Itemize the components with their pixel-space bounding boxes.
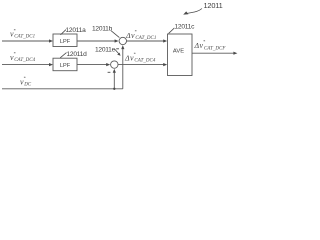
AVE box 12011c — [168, 34, 193, 76]
svg-text:LPF: LPF — [60, 39, 71, 45]
label 12011a — [61, 27, 87, 35]
svg-text:LPF: LPF — [60, 63, 71, 69]
wire vertical bus to summer 2 — [113, 72, 115, 89]
arrowhead bus into summer 1 bottom — [121, 45, 124, 49]
svg-text:AVE: AVE — [173, 48, 184, 54]
summer circle 12011b — [119, 37, 126, 44]
signal label v*CAT_DC1 — [10, 28, 35, 40]
svg-text:CAT_DC4: CAT_DC4 — [134, 59, 155, 64]
wire input row 1 — [2, 40, 51, 42]
wire bottom bus v*DC — [2, 88, 123, 90]
svg-text:12011c: 12011c — [175, 24, 196, 31]
minus sign at summer 1 — [116, 48, 119, 50]
arrowhead into LPF2 — [49, 63, 53, 66]
LPF box U-12011d — [53, 58, 77, 70]
arrowhead bus into summer 2 bottom — [113, 69, 116, 73]
arrowhead into summer 2 — [106, 63, 110, 66]
svg-text:12011a: 12011a — [66, 27, 87, 34]
label 12011d — [60, 51, 87, 58]
svg-text:DC: DC — [23, 82, 32, 87]
arrowhead into AVE row1 — [163, 39, 167, 42]
arrowhead into LPF1 — [49, 39, 53, 42]
svg-text:12011b: 12011b — [92, 26, 113, 33]
summer circle 12011e — [111, 61, 118, 68]
svg-text:CAT_DCF: CAT_DCF — [204, 46, 226, 51]
wire AVE output — [192, 52, 234, 54]
arrowhead into AVE row2 — [163, 63, 167, 66]
svg-text:CAT_DC1: CAT_DC1 — [14, 35, 35, 40]
arrowhead into summer 1 — [115, 39, 119, 42]
svg-text:12011: 12011 — [204, 1, 223, 10]
arrowhead AVE output — [233, 52, 237, 55]
signal label dv*CAT_DC1 — [125, 29, 156, 41]
label 12011e — [95, 47, 121, 56]
minus sign at summer 2 — [108, 71, 111, 73]
label 12011b — [92, 26, 119, 38]
wire summer 2 to AVE — [118, 64, 165, 66]
junction dot on bus — [113, 88, 115, 90]
LPF box U-12011a — [53, 34, 77, 47]
label 12011 overall — [183, 1, 222, 15]
signal label v*DC on bus — [20, 76, 32, 88]
wire LPF2 to summer 2 — [77, 64, 107, 66]
label 12011c — [169, 24, 195, 34]
signal label dv*CAT_DCF output — [194, 39, 227, 51]
wire LPF1 to summer 1 — [77, 40, 115, 42]
signal label dv*CAT_DC4 — [124, 52, 156, 64]
svg-text:12011e: 12011e — [95, 47, 116, 54]
wire input row 2 — [2, 64, 51, 66]
svg-text:12011d: 12011d — [67, 51, 88, 58]
wire vertical bus to summer 1 — [122, 48, 124, 89]
wire summer 1 to AVE — [127, 40, 165, 42]
svg-text:CAT_DC1: CAT_DC1 — [135, 36, 156, 41]
svg-text:CAT_DC4: CAT_DC4 — [14, 58, 35, 63]
signal label v*CAT_DC4 — [10, 51, 36, 63]
